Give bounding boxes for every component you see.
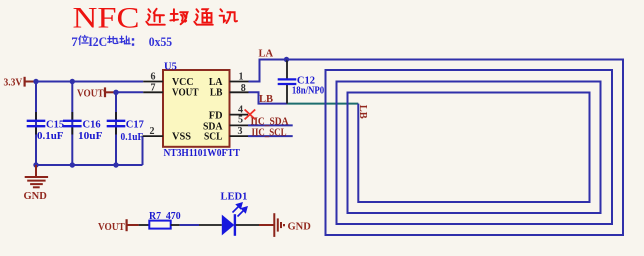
svg-text:10uF: 10uF <box>78 131 103 142</box>
wire pin1 to LA node <box>249 60 287 82</box>
wire LB feed to coil (teal) <box>287 103 358 105</box>
title char 场 <box>170 9 187 24</box>
svg-text:LED1: LED1 <box>221 191 248 202</box>
op IC U5 body <box>163 70 230 147</box>
wire SCL <box>248 135 293 137</box>
wire 3.3V rail <box>36 81 143 83</box>
pin 6 VCC <box>143 81 163 83</box>
wire VOUT to pin7 <box>116 91 143 93</box>
wire C17 vertical <box>115 92 117 165</box>
wire C16 vertical <box>71 82 73 166</box>
node junction bus/C16 <box>70 162 75 167</box>
node junction 3.3V/C16 <box>70 79 75 84</box>
node junction bus/C17 <box>113 162 118 167</box>
LED LED1 <box>222 203 247 236</box>
ground GND (right, sideways) <box>259 213 284 237</box>
pin 1 LA <box>230 81 249 83</box>
svg-text:LA: LA <box>259 49 274 60</box>
capacitor C17 <box>107 121 126 126</box>
svg-text:18n/NP0: 18n/NP0 <box>292 86 324 97</box>
svg-text:LB: LB <box>210 87 223 99</box>
subtitle char 地 <box>108 36 118 43</box>
svg-text:I2C: I2C <box>88 34 107 49</box>
pin stubs C17 <box>115 112 117 120</box>
title char 讯 <box>220 9 237 23</box>
pin R7 right <box>171 224 180 226</box>
svg-text:1: 1 <box>239 72 244 83</box>
pin 8 LB <box>230 91 249 93</box>
svg-text:NFC: NFC <box>73 3 140 35</box>
wire VSS riser <box>142 136 144 165</box>
pin 3 SCL <box>230 135 249 137</box>
subtitle char 址 <box>120 36 130 44</box>
svg-text:GND: GND <box>288 221 312 232</box>
pin 2 VSS <box>143 135 164 137</box>
wire pin8 to LB <box>249 92 288 103</box>
svg-text:2: 2 <box>150 126 155 137</box>
title char 通 <box>194 9 212 24</box>
wire R7 to LED <box>180 224 199 226</box>
svg-text:6: 6 <box>151 72 156 83</box>
pin stubs C16 <box>71 112 73 120</box>
svg-text:C16: C16 <box>83 119 101 130</box>
subtitle char 位 <box>79 35 88 44</box>
svg-text:7: 7 <box>71 34 78 49</box>
svg-text:3: 3 <box>238 126 243 137</box>
svg-text:VOUT: VOUT <box>98 222 125 233</box>
svg-text:4: 4 <box>238 104 243 115</box>
svg-text:LB: LB <box>357 105 368 119</box>
svg-text:U5: U5 <box>164 62 177 73</box>
pin 4 FD <box>230 114 249 116</box>
svg-text:IIC_SCL: IIC_SCL <box>252 127 287 138</box>
pin 5 SDA <box>230 124 249 126</box>
ground GND (left) <box>25 165 48 187</box>
wire C15 vertical <box>35 82 37 166</box>
node junction bus/C15 <box>33 162 38 167</box>
svg-text:C15: C15 <box>46 119 64 130</box>
svg-text:LB: LB <box>259 94 273 105</box>
svg-text:VSS: VSS <box>172 131 191 143</box>
wire SDA <box>248 124 293 126</box>
pin 7 VOUT <box>143 91 163 93</box>
svg-text:0.1uF: 0.1uF <box>37 131 64 142</box>
node junction 3.3V/C15 <box>33 79 38 84</box>
capacitor C16 <box>63 121 82 126</box>
pin R7 left <box>139 224 150 226</box>
pin stubs C15 <box>35 112 37 120</box>
node junction LA/C12 <box>284 57 289 62</box>
svg-text:GND: GND <box>24 191 48 202</box>
capacitor C12 <box>278 79 297 84</box>
svg-text:0.1uF: 0.1uF <box>121 132 144 143</box>
svg-text:3.3V: 3.3V <box>4 78 23 89</box>
antenna coil spiral <box>287 60 624 236</box>
power port VOUT (bottom) <box>98 219 139 233</box>
svg-text:VOUT: VOUT <box>172 87 199 99</box>
svg-text:NT3H1101W0FTT: NT3H1101W0FTT <box>164 148 241 159</box>
node junction VOUT/C17 <box>113 90 118 95</box>
power port VOUT (top) <box>77 87 116 99</box>
subtitle colon <box>132 38 134 46</box>
svg-text:R7 470: R7 470 <box>149 211 181 222</box>
capacitor C12 pins <box>286 60 288 79</box>
svg-text:C17: C17 <box>126 119 144 130</box>
svg-text:IIC_SDA: IIC_SDA <box>251 117 289 128</box>
svg-text:8: 8 <box>241 83 246 94</box>
no-connect X on pin 4 <box>245 110 256 120</box>
power port 3.3V <box>4 77 37 89</box>
svg-text:VOUT: VOUT <box>77 89 104 100</box>
svg-text:5: 5 <box>238 115 243 126</box>
title char 近 <box>146 9 164 25</box>
svg-text:SCL: SCL <box>204 131 223 143</box>
svg-text:0x55: 0x55 <box>149 34 173 49</box>
LED arrows <box>233 203 247 216</box>
pin LED anode <box>199 224 222 226</box>
resistor R7 <box>149 221 170 229</box>
capacitor C15 <box>27 121 46 126</box>
svg-text:7: 7 <box>151 82 156 93</box>
pin LED cathode <box>236 224 259 226</box>
wire ground bus <box>36 164 143 166</box>
